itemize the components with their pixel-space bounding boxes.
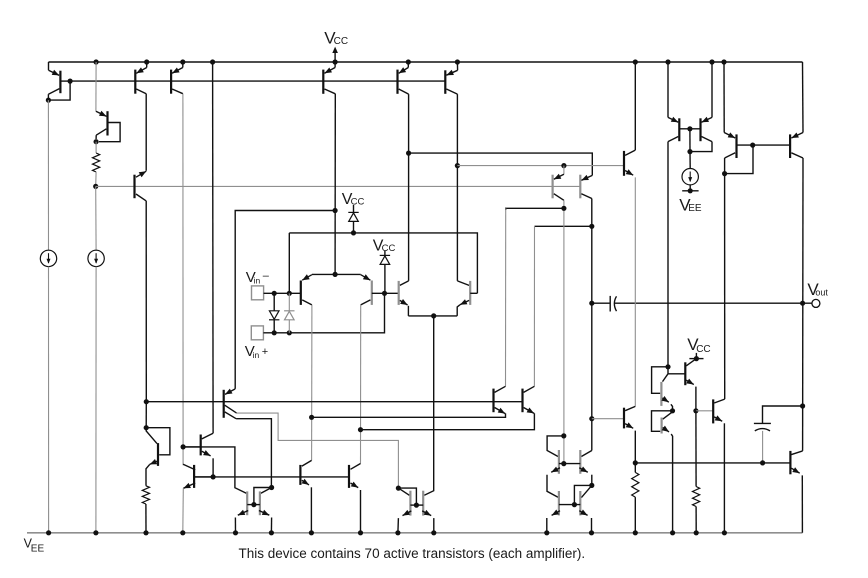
transistor Q38: [662, 412, 673, 533]
svg-text:CC: CC: [351, 196, 365, 207]
wire Q12 base link: [372, 292, 399, 294]
transistor Q18: [146, 428, 170, 486]
junction base link: [382, 291, 387, 296]
junction vinm d3: [272, 291, 277, 296]
wire x213 vertical: [212, 62, 215, 433]
wire I3 out: [689, 185, 691, 191]
junction darlington node: [693, 408, 698, 413]
transistor Q25: [494, 386, 506, 413]
junction x591 y418: [589, 416, 594, 421]
wire Q9 collector: [563, 200, 565, 463]
transistor Q3: [135, 62, 146, 94]
wire M4 hook: [574, 485, 591, 504]
junction x668 node: [665, 364, 670, 369]
junction Q19 rail: [309, 530, 314, 535]
junction x360 y429: [358, 427, 363, 432]
resistor R1: [93, 153, 100, 172]
wire y165 line: [457, 165, 624, 167]
junction vinp d4: [287, 330, 292, 335]
wire y226 link: [535, 225, 592, 227]
svg-text:+: +: [262, 346, 268, 358]
transistor Q28: [579, 450, 592, 485]
wire Q5 collector long: [182, 94, 184, 466]
wire y402 base line: [146, 401, 522, 403]
junction Q29 rail: [544, 530, 549, 535]
transistor Q9: [553, 166, 564, 201]
diode D2: [380, 255, 390, 293]
transistor Q32: [690, 62, 712, 152]
junction M3 base: [561, 461, 566, 466]
svg-text:in: in: [253, 350, 260, 360]
junction y463 start: [633, 460, 638, 465]
junction Q40 rail: [722, 530, 727, 535]
wire y418 gray: [592, 418, 624, 420]
transistor Q39: [668, 359, 696, 411]
current source I2: [88, 250, 104, 266]
wire to R1: [95, 142, 97, 153]
junction input top: [333, 272, 338, 277]
wire C2 stepped: [236, 419, 271, 488]
junction Q2 collector: [94, 139, 99, 144]
transistor Q27: [547, 450, 560, 497]
wire x146 to diode: [145, 402, 147, 428]
junction P2 base: [750, 143, 755, 148]
wire P2 bases: [737, 144, 791, 146]
junction M4 diode node: [589, 483, 594, 488]
wire vin box top: [235, 211, 335, 389]
svg-text:CC: CC: [334, 36, 348, 47]
junction Q17 rail: [180, 530, 185, 535]
junction I1 rail: [46, 530, 51, 535]
transistor Q36: [624, 406, 635, 463]
wire Q7 collector down: [408, 94, 410, 281]
wire M2 bases: [410, 504, 423, 506]
wire VCC top rail: [49, 61, 803, 63]
wire bias line: [96, 185, 581, 187]
wire Q12 collector: [360, 305, 362, 464]
junction P1 base: [687, 126, 692, 131]
wire M3 hook: [547, 436, 564, 457]
junction Q16 emitter node: [211, 474, 216, 479]
transistor Q7: [398, 62, 409, 94]
junction vinp d3: [272, 330, 277, 335]
transistor Q15: [224, 389, 237, 419]
transistor Q31: [668, 62, 679, 142]
transistor Q40: [713, 399, 725, 533]
wire Q31 collector long: [667, 142, 669, 374]
transistor Q17: [183, 464, 213, 533]
junction y153 tap: [406, 151, 411, 156]
svg-text:EE: EE: [31, 543, 45, 554]
wire I2 to rail: [95, 267, 97, 533]
transistor Q29: [547, 491, 560, 533]
junction Q16 base: [181, 444, 186, 449]
label VEE bottom: [24, 536, 45, 554]
junction Q9 coll y208: [561, 206, 566, 211]
port Vin+ pad: [251, 326, 263, 340]
junction Q20 rail: [358, 530, 363, 535]
junction C2 y463: [760, 460, 765, 465]
diode D3: [269, 293, 279, 333]
wire stack hook2: [652, 411, 673, 432]
transistor Q13: [399, 281, 409, 316]
transistor Q10: [580, 175, 592, 199]
transistor Q26: [523, 386, 535, 413]
junction Q22 rail: [269, 530, 274, 535]
junction Q10 coll y226: [589, 224, 594, 229]
junction Q1 base: [68, 79, 73, 84]
transistor Q1: [48, 62, 70, 100]
transistor Q2: [96, 62, 120, 142]
resistor R2: [142, 486, 149, 504]
transistor Q19: [300, 460, 311, 532]
label Vout: [807, 280, 828, 299]
transistor Q8: [445, 62, 457, 94]
junction diode Q18 top: [144, 425, 149, 430]
wire M1 hook: [254, 488, 272, 505]
junction P1 tie: [687, 149, 692, 154]
label VEE mid: [679, 195, 702, 214]
transistor Q16: [183, 433, 213, 477]
wire M1 bases: [247, 504, 260, 506]
junction I3 term: [688, 188, 693, 193]
junction R3 rail: [633, 530, 638, 535]
wire Q8 collector down: [456, 94, 458, 281]
capacitor C2: [754, 423, 771, 431]
wire y208 link: [506, 208, 564, 210]
junction M1 diode node: [269, 485, 274, 490]
wire C1 stepped: [237, 413, 399, 488]
wire tail link: [408, 315, 457, 317]
junction M2 base: [414, 503, 419, 508]
junction M4 base: [572, 502, 577, 507]
junction rail x712: [709, 59, 714, 64]
wire P1 base down: [689, 129, 691, 152]
wire P2 hook: [725, 145, 753, 174]
diode D4: [284, 293, 294, 333]
transistor Q37: [661, 374, 672, 411]
junction Q30 rail: [589, 530, 594, 535]
junction Q24 rail: [431, 530, 436, 535]
junction tail: [431, 313, 436, 318]
transistor Q11: [301, 274, 312, 305]
transistor Q34: [790, 62, 803, 158]
wire Q3 collector down: [145, 94, 147, 171]
label VCC: [324, 29, 348, 48]
wire Q40 base: [696, 410, 713, 412]
wire y233 routing: [289, 233, 477, 293]
transistor Q14: [457, 281, 470, 316]
wire Q1 collector down: [47, 100, 49, 250]
junction rail x146.7: [144, 59, 149, 64]
wire Q1 base-collector tie: [48, 81, 70, 100]
capacitor C1: [610, 296, 616, 312]
junction vcc lr: [694, 356, 699, 361]
junction x311 y417: [309, 415, 314, 420]
wire Q4 collector long: [145, 201, 147, 402]
resistor R3: [632, 463, 639, 533]
power VCC terminal D2: [384, 251, 386, 256]
wire P1 bases: [679, 128, 700, 130]
junction stack mid: [670, 408, 675, 413]
svg-text:CC: CC: [696, 344, 710, 355]
junction rail x96: [94, 59, 99, 64]
current source I1: [40, 250, 56, 266]
wire Q10 collector: [591, 199, 593, 451]
wire C2 top link: [763, 406, 803, 423]
junction rail x182.8: [180, 59, 185, 64]
label VCC lr: [687, 335, 710, 355]
junction diode1 tap: [351, 230, 356, 235]
junction M2 diode node: [396, 486, 401, 491]
transistor Q24: [422, 491, 434, 533]
junction rail x724: [721, 59, 726, 64]
junction y165 tap: [455, 163, 460, 168]
wire y463 line: [635, 462, 790, 464]
junction I2 rail: [93, 530, 98, 535]
wire input emitters top: [312, 273, 361, 275]
transistor Q5: [171, 62, 183, 94]
junction R4 rail: [694, 530, 699, 535]
wire bias node down: [95, 186, 97, 250]
transistor Q4: [135, 171, 147, 201]
junction rail x635: [633, 59, 638, 64]
transistor Q6: [323, 62, 335, 94]
junction M1 base: [251, 502, 256, 507]
label caption: [239, 546, 586, 561]
wire M3 bases: [559, 463, 580, 465]
transistor Q33: [724, 62, 737, 174]
transistor Q21: [235, 491, 248, 532]
current source I3: [682, 152, 698, 185]
wire y447 link: [183, 447, 246, 493]
port Vout terminal: [812, 299, 820, 307]
wire Q14 base link: [470, 292, 477, 294]
port Vin- pad: [252, 286, 264, 300]
transistor Q30: [579, 485, 592, 532]
wire vout line right: [614, 302, 812, 304]
wire y477 line: [194, 476, 349, 478]
transistor Q22: [259, 488, 272, 533]
junction Q6 node210: [333, 208, 338, 213]
junction rail x212.6: [210, 59, 215, 64]
svg-text:–: –: [263, 270, 270, 282]
junction vinm d4: [287, 291, 292, 296]
wire Vin- line: [264, 292, 301, 294]
junction R2 rail: [143, 530, 148, 535]
svg-text:CC: CC: [382, 243, 396, 254]
wire y417 line: [312, 413, 506, 417]
wire M2 hook: [398, 488, 416, 505]
junction P2 tie: [722, 171, 727, 176]
wire Q6 collector down: [334, 94, 336, 275]
wire Q33 collector long: [724, 174, 726, 400]
junction rail x408.3: [406, 59, 411, 64]
transistor Q23: [398, 488, 412, 533]
resistor R4: [693, 411, 700, 533]
wire Q34 collector long: [802, 158, 804, 451]
wire I1 to VEE rail: [48, 267, 50, 533]
wire R2 down: [145, 504, 147, 533]
svg-text:in: in: [254, 276, 261, 286]
wire x289 drop: [288, 233, 290, 293]
junction Q1 collector: [46, 98, 51, 103]
transistor Q20: [349, 464, 361, 533]
power VEE terminal: [682, 190, 698, 192]
label Vin-: [246, 269, 270, 286]
power VCC terminal lr: [689, 353, 703, 359]
wire tail down: [424, 316, 433, 495]
junction rail x457.4: [455, 59, 460, 64]
junction vcc rail: [333, 59, 338, 64]
svg-text:This device contains 70 active: This device contains 70 active transisto…: [239, 546, 586, 561]
junction x591 vout: [589, 301, 594, 306]
wire base rail: [70, 80, 445, 82]
junction Q38 rail: [670, 530, 675, 535]
wire Q11 collector: [311, 305, 313, 461]
wire y153 line: [409, 153, 593, 175]
svg-text:out: out: [815, 288, 828, 298]
label Vin+: [245, 343, 268, 360]
junction x802 y406: [800, 403, 805, 408]
wire VEE bottom rail: [27, 532, 802, 534]
junction M3 hook top: [561, 433, 566, 438]
transistor Q12: [361, 274, 372, 305]
power VCC terminal arrow: [332, 47, 338, 62]
junction y402 node: [144, 399, 149, 404]
wire Vin+ line: [263, 293, 384, 333]
power VCC terminal D1: [353, 205, 355, 213]
junction R1 bias node: [93, 184, 98, 189]
label VCC D1: [342, 191, 365, 208]
junction rail x668: [665, 59, 670, 64]
junction Q21 rail: [233, 530, 238, 535]
wire vout line left: [592, 302, 610, 304]
junction vout tap: [800, 301, 805, 306]
wire y429 line: [361, 413, 535, 430]
wire x534.5 vertical: [533, 226, 535, 386]
junction Q23 rail: [395, 530, 400, 535]
label VCC D2: [373, 237, 396, 254]
transistor Q41: [790, 451, 802, 533]
svg-text:EE: EE: [688, 203, 702, 214]
wire M4 bases: [559, 504, 580, 506]
junction y165 x564: [561, 163, 566, 168]
wire C2 bottom link: [762, 431, 764, 463]
wire R1 down: [95, 172, 97, 186]
transistor Q35: [624, 62, 635, 406]
wire stack hook1: [652, 367, 668, 394]
diode D1: [348, 212, 358, 233]
wire x505.7 vertical: [505, 208, 507, 386]
